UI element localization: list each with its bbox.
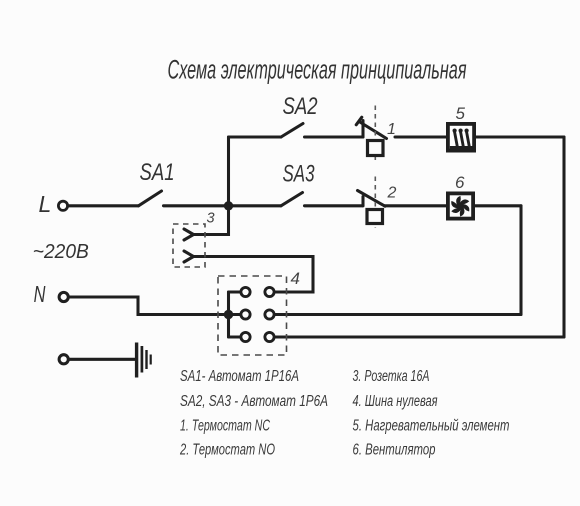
thermostat 2 blade xyxy=(358,191,386,207)
svg-text:4: 4 xyxy=(291,269,300,288)
switch SA1 blade xyxy=(139,191,162,206)
wire junction down to socket xyxy=(194,206,229,235)
svg-text:N: N xyxy=(34,281,46,307)
wire N bus vertical xyxy=(227,292,230,337)
svg-text:1. Термостат NC: 1. Термостат NC xyxy=(180,418,271,435)
wire thermostat 1 to heater xyxy=(395,135,447,138)
wire SA2 to thermostat 1 xyxy=(305,135,364,138)
wire bus stub top xyxy=(229,290,241,293)
thermostat 1 dashed link xyxy=(374,106,376,161)
ground symbol xyxy=(137,343,151,378)
wire PE to ground xyxy=(69,358,136,361)
wire bus stub bottom xyxy=(229,335,241,338)
svg-text:1: 1 xyxy=(387,121,396,138)
svg-text:5: 5 xyxy=(456,104,466,123)
wire right drop heater xyxy=(562,137,565,337)
svg-text:2: 2 xyxy=(387,185,397,202)
switch SA2 blade xyxy=(281,124,303,138)
bus pin circles xyxy=(241,287,274,341)
thermostat 2 dashed link xyxy=(374,177,376,229)
svg-text:6. Вентилятор: 6. Вентилятор xyxy=(353,442,436,459)
svg-text:3: 3 xyxy=(207,211,215,227)
node phase junction xyxy=(224,201,233,210)
wire SA3 to thermostat 2 xyxy=(305,204,364,207)
wire fan to right xyxy=(475,204,522,207)
wire to SA2 xyxy=(229,135,282,138)
thermostat 1 contact riser xyxy=(361,121,364,138)
wire L to SA1 xyxy=(68,204,139,207)
neutral bus dashed outline 4 xyxy=(218,276,287,355)
svg-text:SA1- Автомат 1Р16А: SA1- Автомат 1Р16А xyxy=(180,368,299,385)
svg-text:SA3: SA3 xyxy=(283,161,315,188)
svg-text:~220В: ~220В xyxy=(33,240,89,263)
socket dashed outline 3 xyxy=(173,224,205,267)
thermostat 1 actuator square xyxy=(368,141,384,156)
svg-text:5. Нагревательный элемент: 5. Нагревательный элемент xyxy=(353,418,510,435)
svg-text:Схема электрическая принципиал: Схема электрическая принципиальная xyxy=(168,55,467,85)
fan M box 6 xyxy=(448,193,473,218)
svg-text:SA1: SA1 xyxy=(140,159,175,186)
wire thermostat 2 to fan xyxy=(385,204,448,207)
wire heater return to bus xyxy=(274,335,564,338)
svg-text:SA2: SA2 xyxy=(283,93,318,120)
thermostat 2 contact riser xyxy=(361,197,364,206)
socket bottom prong xyxy=(184,251,194,262)
wire socket to bus xyxy=(194,257,314,293)
svg-text:3. Розетка 16А: 3. Розетка 16А xyxy=(353,368,430,385)
switch SA3 blade xyxy=(281,193,303,206)
terminal PE xyxy=(59,355,68,364)
wire fan return to bus xyxy=(274,313,521,316)
wire riser to SA2 xyxy=(227,137,230,207)
svg-text:2. Термостат NO: 2. Термостат NO xyxy=(179,442,275,459)
terminal L xyxy=(58,201,67,210)
wire N to bus xyxy=(69,297,229,315)
svg-text:6: 6 xyxy=(455,173,465,192)
node N junction xyxy=(224,310,233,319)
wire SA1 to SA3 xyxy=(164,204,282,207)
wire heater to right xyxy=(476,135,565,138)
svg-text:SA2, SA3 - Автомат 1Р6А: SA2, SA3 - Автомат 1Р6А xyxy=(180,393,328,410)
thermostat 2 actuator square xyxy=(367,210,383,224)
socket top prong xyxy=(184,229,194,240)
thermostat 1 tip tick xyxy=(356,117,362,125)
svg-text:L: L xyxy=(39,191,52,217)
wire right drop fan xyxy=(519,206,522,315)
fan impeller glyph xyxy=(450,195,471,217)
thermostat 1 blade xyxy=(359,122,387,139)
wire bus stub middle xyxy=(229,313,241,316)
svg-text:4. Шина нулевая: 4. Шина нулевая xyxy=(353,393,438,410)
terminal N xyxy=(59,292,68,301)
heater EK box 5 xyxy=(448,124,474,151)
heater element glyph xyxy=(450,129,473,152)
